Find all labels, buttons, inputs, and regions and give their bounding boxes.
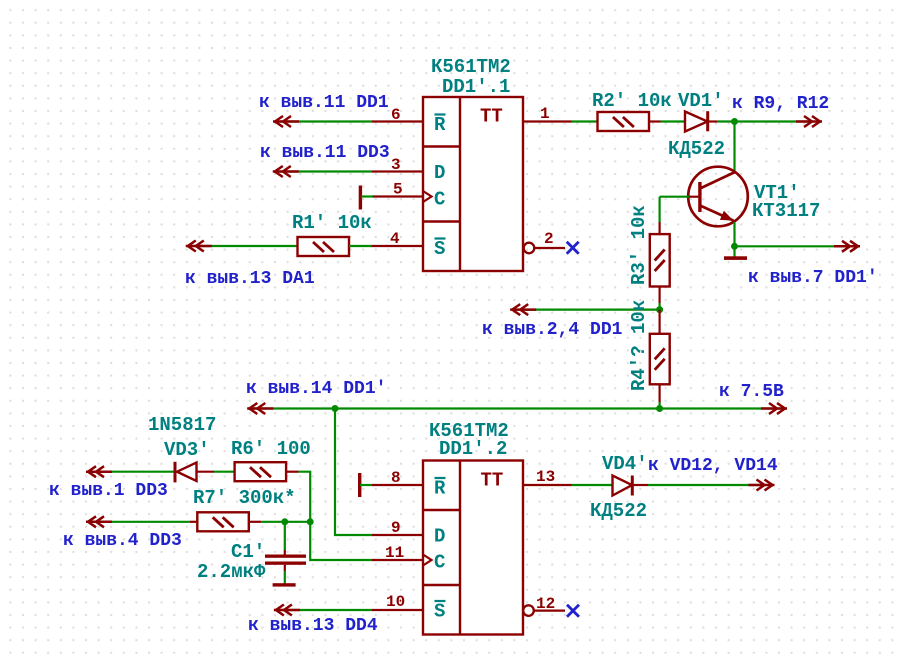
svg-text:к выв.14 DD1': к выв.14 DD1' [246,379,386,399]
resistor R6 [235,462,287,481]
wire vertical x335 to D pin [335,409,372,536]
junction R3 R4 [656,306,663,313]
pin 3 stub of DD1'.1 [372,170,423,172]
svg-text:S: S [434,238,445,260]
wire between junctions [285,521,310,523]
wire row к выв.2,4 DD1 [513,309,660,311]
VD4 right stub [632,484,648,486]
svg-text:1: 1 [540,105,550,123]
R2 right stub [649,120,661,122]
svg-text:к VD12, VD14: к VD12, VD14 [648,456,778,476]
svg-text:10: 10 [386,593,405,611]
wire emitter to arrow к выв.7 DD1' [735,245,849,247]
wire base to R3 top [658,197,660,222]
svg-text:2: 2 [544,230,554,248]
wire R2 to VD1 [661,120,686,122]
R3 bottom stub [658,287,660,304]
wire VD4 to arrow [648,484,762,486]
svg-text:D: D [434,162,445,184]
diode VD4 [613,476,633,496]
junction j1 C1 top [281,518,288,525]
svg-text:VD4': VD4' [602,453,648,475]
svg-text:C: C [434,552,445,574]
arrow port к выв.4 DD3 [86,516,112,527]
svg-text:к выв.7 DD1': к выв.7 DD1' [748,268,878,288]
pin name S of DD1'.2 [434,601,446,623]
flip-flop DD1'.2 box [423,461,523,635]
svg-text:C: C [434,189,445,211]
wire pin 1 to R2 [572,120,598,122]
pin 6 stub of DD1'.1 [372,120,423,122]
R3 top stub [658,222,660,234]
svg-text:к выв.11 DD1: к выв.11 DD1 [259,93,389,113]
op-amp U1 body: flip-flop DD1'.1 box [423,97,523,271]
wire R6 corner down to junction [299,472,311,522]
R7 right stub [249,521,261,523]
wire C1 bottom to ground bar [284,565,286,584]
pin 10 stub of DD1'.2 [372,609,423,611]
arrow port к R9 R12 [796,116,822,127]
wire R7 to junction [261,521,285,523]
wire to pin 3 [280,170,372,172]
junction at VD1 output [731,118,738,125]
resistor R2 [598,112,650,131]
svg-text:R2' 10к: R2' 10к [592,90,672,112]
svg-text:к выв.13 DA1: к выв.13 DA1 [185,269,315,289]
wire j1 down to C1 [284,522,286,555]
pin 2 inverted output of DD1'.1 [524,243,565,254]
wire pin5 to bar [361,195,373,197]
svg-text:8: 8 [391,469,401,487]
arrow port к выв.1 DD3 [86,466,112,477]
wire R3 to junction [658,303,660,310]
R6 right stub [286,471,298,473]
pin 13 stub of DD1'.2 [523,484,572,486]
junction at emitter [731,243,738,250]
arrow port к выв.11 DD1 [273,116,299,127]
svg-text:12: 12 [536,595,555,613]
arrow port к выв.14 DD1' [247,403,273,414]
pin 5 stub of DD1'.1 [372,195,423,197]
ground bar at emitter [724,256,747,260]
R4 bottom stub [658,384,660,402]
wire base [660,196,689,198]
wire R4 to bus row [658,402,660,409]
wire to pin 6 [280,120,372,122]
wire arrow to pin 10 [278,609,372,611]
svg-text:1N5817: 1N5817 [148,414,216,436]
svg-text:R: R [434,114,446,136]
arrow port к выв.13 DD4 [274,605,300,616]
svg-text:КТ3117: КТ3117 [752,200,820,222]
wire j2 down to pin 11 row [310,522,372,560]
arrow port к 7.5В [761,403,787,414]
no-connect X at pin 12 [567,605,579,617]
no-connect X at pin 2 [567,242,579,254]
arrow port к выв.7 DD1' [834,241,860,252]
wire arrow to VD3 [93,471,174,473]
svg-text:DD1'.1: DD1'.1 [442,76,510,98]
arrow port к VD12 VD14 [749,480,775,491]
R4 top stub [658,310,660,334]
arrow port к выв.13 DA1 [186,241,212,252]
wire arrow to R1 [193,245,298,247]
svg-text:D: D [434,526,445,548]
svg-text:к R9, R12: к R9, R12 [732,94,829,114]
svg-text:КД522: КД522 [590,500,647,522]
svg-text:6: 6 [391,106,401,124]
pin name S of DD1'.1 [434,238,446,260]
svg-text:к выв.13 DD4: к выв.13 DD4 [248,616,378,636]
junction j2 R6 branch [307,518,314,525]
resistor R1 [298,237,350,256]
svg-text:5: 5 [393,181,403,199]
junction row408 x659 [656,405,663,412]
svg-text:3: 3 [391,156,401,174]
svg-text:4: 4 [390,230,400,248]
svg-text:DD1'.2: DD1'.2 [439,438,507,460]
svg-text:R1' 10к: R1' 10к [292,212,372,234]
wire emitter to ground bar [733,246,735,256]
diode VD1 [685,111,708,131]
pin 9 stub of DD1'.2 [372,534,423,536]
svg-text:2.2мкФ: 2.2мкФ [197,561,266,583]
pin 1 stub of DD1'.1 [523,120,572,122]
wire pin8 to bar [360,484,372,486]
svg-text:КД522: КД522 [668,138,725,160]
svg-text:к выв.2,4 DD1: к выв.2,4 DD1 [482,320,623,340]
bar terminal at pin 5 [359,186,362,210]
transistor Q1 VT1' [688,167,748,227]
svg-text:VD3': VD3' [164,439,210,461]
resistor R7 [197,512,249,531]
svg-text:13: 13 [536,468,555,486]
R7 left stub [190,521,198,523]
pin 4 stub of DD1'.1 [371,245,423,247]
resistor R3 [650,234,670,286]
svg-text:C1': C1' [231,541,265,563]
svg-text:R7' 300к*: R7' 300к* [193,487,296,509]
svg-text:к выв.1 DD3: к выв.1 DD3 [49,481,168,501]
pin 11 stub of DD1'.2 [372,559,423,561]
ground bar below C1 [273,583,296,586]
arrow port к выв.2,4 DD1 [510,304,536,315]
pin 12 inverted output of DD1'.2 [523,605,565,616]
wire VD3 to R6 [197,471,235,473]
clock mark pin C of DD1'.2 [423,555,432,566]
pin 8 stub of DD1'.2 [372,484,423,486]
svg-text:S: S [434,601,445,623]
svg-text:R3' 10к: R3' 10к [628,205,650,285]
diode VD3 [175,462,197,483]
svg-text:11: 11 [385,544,404,562]
pin name R of DD1'.2 [434,478,446,500]
svg-text:R: R [434,478,446,500]
svg-text:ТТ: ТТ [481,470,504,492]
arrow port к выв.11 DD3 [273,166,299,177]
wire long row к выв.14 DD1' [247,407,787,409]
svg-text:ТТ: ТТ [480,106,503,128]
bar terminal at pin 8 [358,473,361,497]
wire pin 13 to VD4 [572,484,613,486]
svg-text:к 7.5В: к 7.5В [719,382,784,402]
svg-text:R6' 100: R6' 100 [231,438,311,460]
svg-text:к выв.11 DD3: к выв.11 DD3 [260,143,390,163]
clock mark pin C of DD1'.1 [423,191,432,202]
pin name R of DD1'.1 [434,114,446,136]
wire VD1 to arrow к R9 R12 [717,120,812,122]
VD1 right stub [708,120,717,122]
resistor R4 [650,334,670,385]
svg-text:9: 9 [391,519,401,537]
wire collector vertical [733,122,735,173]
base stub red [689,196,698,198]
wire emitter vertical [733,222,735,246]
svg-text:R4'? 10к: R4'? 10к [628,300,650,391]
wire arrow to R7 [93,521,190,523]
svg-text:VD1': VD1' [678,90,724,112]
capacitor C1 [265,555,306,565]
junction row408 x335 [332,405,339,412]
svg-text:к выв.4 DD3: к выв.4 DD3 [63,531,182,551]
wire R1 to pin 4 [349,245,372,247]
svg-text:К561ТМ2: К561ТМ2 [431,56,511,78]
